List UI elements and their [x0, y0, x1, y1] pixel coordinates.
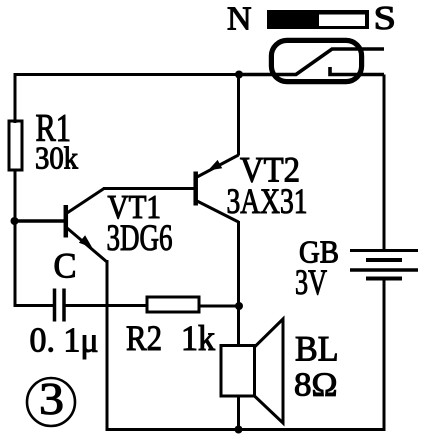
svg-text:3DG6: 3DG6	[107, 218, 173, 259]
svg-text:R2: R2	[126, 318, 162, 358]
svg-text:3: 3	[39, 374, 64, 424]
wire left rail upper	[14, 73, 17, 123]
wire R2 to VT2 collector	[199, 305, 238, 308]
wire VT1 emitter vertical	[106, 260, 109, 430]
svg-text:30k: 30k	[35, 140, 78, 176]
node junction R2 right	[235, 302, 243, 310]
wire VT1 base	[14, 219, 64, 223]
resistor R2	[147, 297, 199, 312]
reed switch right contact	[330, 67, 384, 75]
svg-text:8Ω: 8Ω	[294, 367, 338, 404]
wire speaker to bottom rail	[237, 396, 240, 430]
wire bottom rail	[106, 428, 386, 431]
reed switch envelope	[271, 40, 361, 81]
wire right rail upper	[383, 75, 386, 251]
speaker BL	[221, 319, 283, 423]
svg-text:0. 1μ: 0. 1μ	[30, 321, 99, 360]
wire capacitor left	[14, 304, 55, 307]
magnet bar	[267, 10, 369, 29]
svg-text:N: N	[227, 1, 252, 38]
svg-text:1k: 1k	[181, 318, 215, 358]
wire VT1 collector to VT2 base	[103, 187, 194, 190]
wire left rail lower	[14, 170, 17, 306]
svg-text:BL: BL	[295, 329, 339, 369]
wire VT2 emitter vertical	[237, 75, 240, 156]
svg-text:3AX31: 3AX31	[227, 181, 308, 221]
transistor VT2	[196, 155, 239, 222]
resistor R1	[9, 121, 22, 170]
transistor VT1	[66, 189, 107, 263]
svg-text:C: C	[54, 246, 77, 286]
node junction top (VT2 emitter tap)	[235, 71, 243, 79]
svg-text:S: S	[374, 0, 397, 37]
figure number 3 circle	[27, 374, 75, 426]
svg-text:3V: 3V	[295, 262, 327, 302]
battery GB	[350, 251, 418, 279]
wire capacitor to R2	[65, 304, 147, 307]
node junction VT1 base	[11, 217, 19, 225]
wire right rail lower	[383, 279, 386, 431]
capacitor C	[55, 289, 65, 322]
reed switch left contact (movable reed)	[239, 49, 384, 75]
wire VT2 collector vertical	[237, 221, 240, 347]
wire top rail	[15, 73, 239, 76]
node junction bottom	[235, 426, 243, 434]
